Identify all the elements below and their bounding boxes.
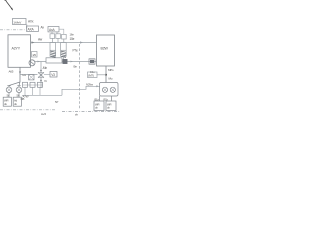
svg-text:A2YY: A2YY — [12, 47, 21, 51]
brake box B_rl — [3, 97, 11, 106]
wire box A3 to valve V1c riser — [59, 29, 64, 34]
valve V6 bowtie — [38, 73, 44, 78]
bottom dash-dot boundary left — [0, 109, 56, 111]
pump P_fr mark — [111, 88, 114, 91]
wire box A1 to box A2 — [26, 25, 28, 29]
valve V1c — [62, 34, 67, 39]
box MCU right (B2W) — [97, 35, 115, 66]
arrowhead mid bus left — [38, 61, 41, 63]
brake box B_rr — [13, 97, 21, 106]
arrow on mid bus — [71, 61, 74, 63]
cylinder Z2 — [61, 43, 67, 57]
svg-text:N2Nw: N2Nw — [86, 82, 94, 86]
valve W1 — [23, 82, 28, 87]
wire valve V1c down — [63, 39, 65, 43]
wire left box down — [19, 67, 21, 82]
valve V4 fill — [90, 60, 94, 63]
junction arrow on left down wire — [19, 72, 21, 75]
vertical valve branch — [40, 62, 42, 89]
svg-text:B2W: B2W — [101, 47, 109, 51]
wire valve W2 down — [32, 87, 34, 95]
left feed line — [20, 74, 38, 76]
svg-text:(M7): (M7) — [88, 73, 94, 77]
cylinder Z1 spring hatch — [50, 51, 55, 57]
cylinder Z1 — [50, 43, 56, 57]
svg-text:P7e: P7e — [73, 49, 78, 53]
svg-text:16e: 16e — [70, 33, 75, 37]
svg-text:AXA: AXA — [28, 27, 35, 31]
cylinder Z2 spring hatch — [61, 51, 66, 57]
pump P_rl mark — [7, 88, 11, 92]
svg-text:V3: V3 — [51, 73, 55, 77]
valve W3 — [38, 82, 43, 87]
wire pump unit to brake box B_fl — [99, 96, 101, 101]
wire box A3 to valve V1b — [56, 32, 58, 34]
main supply line (top bus) — [31, 42, 97, 44]
reservoir flat box — [46, 58, 62, 63]
wire cylinder Z2 to mid bus — [62, 56, 64, 61]
valve W2 — [30, 82, 35, 87]
valve V2 dark on mid bus — [63, 59, 67, 63]
sensor S1 small box on left box — [32, 52, 38, 58]
tick above pump P_rl — [7, 85, 10, 87]
pump P_fl mark — [103, 88, 106, 91]
valve V5 on left feed — [29, 75, 34, 80]
valve V1b — [56, 34, 61, 39]
svg-text:A65: A65 — [9, 70, 14, 74]
svg-text:Mu: Mu — [109, 77, 113, 81]
wire right box down — [105, 66, 107, 83]
junction dot right — [105, 74, 107, 76]
feed line right — [97, 74, 106, 76]
branch wire to pump P_rl — [9, 82, 20, 87]
reference arrow 1 — [5, 0, 13, 10]
box M7 — [88, 72, 98, 78]
box A1 (ECU top) — [13, 19, 27, 25]
box A3 — [48, 27, 59, 32]
brake box B_fl — [94, 101, 104, 111]
wire pump P_rl to brake box B_rl — [8, 93, 10, 98]
svg-text:-Mn: -Mn — [42, 66, 47, 70]
dashed section line (vertical) — [79, 44, 81, 110]
pump P_rr mark — [17, 88, 21, 92]
branch wire to pump P_rr — [19, 82, 20, 87]
valve row link line — [23, 84, 44, 86]
svg-text:7x9: 7x9 — [22, 73, 27, 77]
tick above pump P_rr — [17, 85, 20, 87]
junction dot lower branch — [40, 80, 42, 82]
arrowhead on top bus — [80, 41, 83, 43]
box MCU left (A2YY) — [8, 35, 31, 68]
box V3 — [50, 72, 57, 78]
svg-text:Be: Be — [74, 65, 78, 69]
mid bus line — [35, 61, 97, 63]
box A2 — [27, 26, 39, 31]
wire valve V1b to cylinder Z2 — [57, 38, 59, 42]
pump M1 on left box — [29, 60, 35, 66]
bottom dash-dot boundary right — [62, 111, 120, 113]
pump M1 mark — [30, 61, 34, 64]
wire cylinder Z1 to mid bus — [52, 56, 54, 61]
wire valve W3 down — [39, 87, 41, 95]
pump P_fl inside unit — [102, 87, 107, 92]
pump P_fr inside unit — [110, 87, 115, 92]
pump unit box (rounded) — [100, 83, 119, 97]
wire valve V1a to cylinder Z1 — [52, 38, 54, 42]
low line left — [22, 94, 62, 96]
svg-text:1-MxV: 1-MxV — [13, 20, 22, 24]
svg-text:AXx: AXx — [28, 20, 34, 24]
wire pump P_rr to brake box B_rr — [18, 93, 20, 98]
svg-text:Vt: Vt — [44, 79, 47, 83]
valve V5 cross — [29, 75, 34, 80]
low line step up — [62, 86, 100, 95]
arrowhead into pump unit — [96, 85, 99, 87]
svg-text:1/9: 1/9 — [32, 53, 36, 57]
svg-text:15e: 15e — [70, 37, 75, 41]
wire pump unit to brake box B_fr — [111, 96, 113, 101]
wire valve V6 to box V3 — [44, 73, 50, 75]
background — [0, 0, 120, 120]
pump P_rl (wheel left) — [6, 87, 12, 93]
wire box A3 to valve V1a — [51, 32, 53, 34]
dash-dot boundary line (vehicle body, top-left) — [0, 29, 26, 31]
svg-text:MPs: MPs — [108, 68, 114, 72]
junction dot V6 — [40, 70, 42, 72]
valve V1a — [50, 34, 55, 39]
arrowhead top bus at left box — [32, 41, 35, 43]
svg-text:A+5: A+5 — [41, 112, 46, 116]
pump P_rr (wheel right) — [16, 87, 22, 93]
valve V4 dark near right box — [89, 59, 95, 64]
brake box B_fr — [106, 101, 116, 111]
wire valve W1 down — [24, 87, 26, 95]
svg-text:OB: OB — [21, 97, 25, 101]
